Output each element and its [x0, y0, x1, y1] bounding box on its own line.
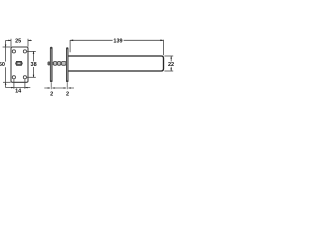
svg-text:139: 139 [113, 39, 122, 45]
dimension 22 (bar height) [164, 56, 173, 71]
dimension 50 (left of plate) [3, 40, 11, 87]
bead 1 [53, 61, 56, 65]
svg-text:25: 25 [15, 38, 21, 44]
svg-text:22: 22 [168, 62, 174, 68]
plate A (side view) [50, 47, 53, 83]
dimension 2 (plate B thickness) [67, 82, 74, 89]
bead 2 [57, 61, 60, 65]
hole top-right [23, 50, 26, 53]
dimension 14 (bottom, hole spacing) [6, 79, 31, 88]
dimension 139 (bar length) [70, 40, 163, 56]
center hex hub [16, 61, 23, 65]
rod connector [52, 63, 66, 65]
svg-text:2: 2 [50, 91, 53, 97]
plate B (side view) [66, 47, 69, 82]
hole bottom-left [12, 76, 15, 79]
front view: mounting plate outline [11, 47, 28, 82]
svg-text:50: 50 [0, 62, 5, 68]
svg-text:2: 2 [66, 91, 69, 97]
hole bottom-right [23, 76, 26, 79]
dimension 2 (plate A thickness) [44, 83, 66, 90]
hole top-left [12, 50, 15, 53]
dimension 38 (right of plate, hole spacing) [27, 51, 36, 77]
dimension 25 (top of plate) [6, 39, 32, 47]
bead 3 [61, 61, 66, 65]
long bar (side view arm) [68, 56, 164, 71]
svg-text:14: 14 [15, 89, 22, 95]
side view: screw head left of plate A [48, 62, 50, 65]
svg-text:38: 38 [31, 62, 37, 68]
